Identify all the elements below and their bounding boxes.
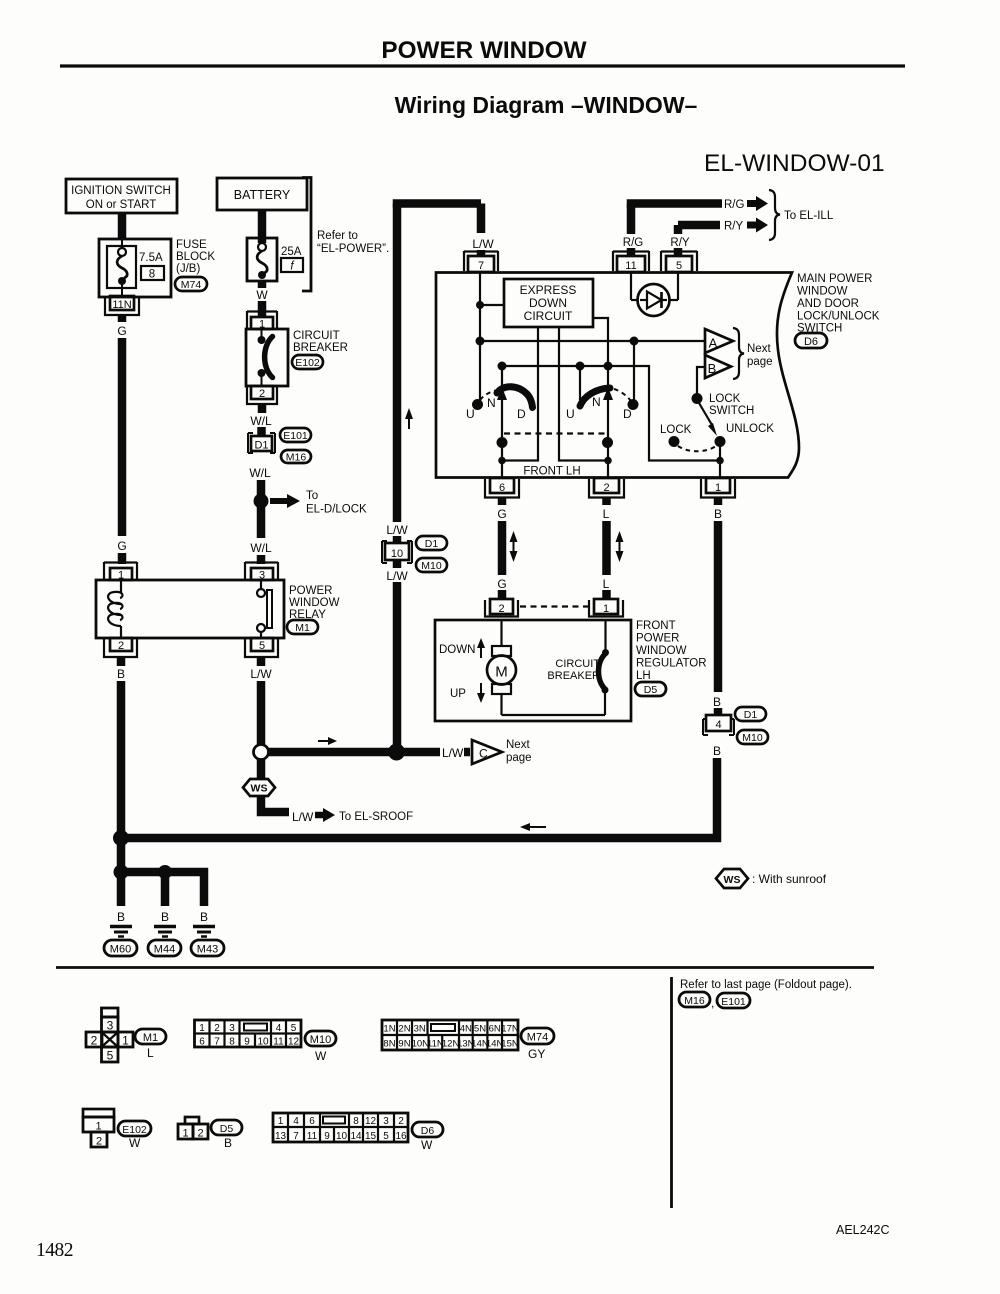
label Next page xyxy=(506,739,532,764)
svg-text:14: 14 xyxy=(350,1131,362,1142)
label B ground 1 xyxy=(117,910,125,924)
wire ignition to fuse block xyxy=(118,213,127,240)
label N xyxy=(592,395,601,409)
svg-text:13: 13 xyxy=(275,1131,287,1142)
svg-text:WINDOW: WINDOW xyxy=(797,286,848,298)
label 25A xyxy=(281,246,302,258)
svg-text:BATTERY: BATTERY xyxy=(234,188,291,202)
bus line 1 inside switch xyxy=(476,337,706,346)
svg-text:E101: E101 xyxy=(721,996,746,1008)
ground bus junction dot xyxy=(113,830,129,846)
svg-text:5: 5 xyxy=(383,1131,389,1142)
svg-text:W: W xyxy=(315,1049,327,1063)
connector 10 inline xyxy=(382,541,412,563)
arrow double L xyxy=(616,531,624,562)
label W/L xyxy=(250,414,272,428)
svg-text:IGNITION SWITCH: IGNITION SWITCH xyxy=(71,185,171,197)
wire dot to C triangle xyxy=(404,748,470,757)
label R/G xyxy=(724,199,745,211)
svg-text:FRONT LH: FRONT LH xyxy=(523,466,580,478)
wire relay 2 to ground bus xyxy=(117,657,126,872)
svg-text:16: 16 xyxy=(395,1131,407,1142)
svg-text:9: 9 xyxy=(244,1037,250,1048)
regulator connector 2 xyxy=(485,599,518,617)
oval M60 xyxy=(104,940,137,956)
svg-text:“EL-POWER”.: “EL-POWER”. xyxy=(317,243,389,255)
wire line2 to right U contact xyxy=(579,366,581,400)
label B xyxy=(713,744,721,758)
header rule xyxy=(60,64,905,67)
svg-text:6: 6 xyxy=(499,482,505,494)
svg-text:WS: WS xyxy=(251,783,268,795)
wire WS to EL-SROOF xyxy=(261,796,289,812)
svg-text:G: G xyxy=(497,577,506,591)
svg-text:3: 3 xyxy=(229,1023,235,1034)
svg-text:UNLOCK: UNLOCK xyxy=(726,423,774,435)
svg-text:M16: M16 xyxy=(286,452,307,464)
svg-text:6N: 6N xyxy=(489,1024,501,1035)
svg-text:7: 7 xyxy=(214,1037,220,1048)
svg-text:M74: M74 xyxy=(527,1032,548,1044)
svg-text:6: 6 xyxy=(199,1037,205,1048)
arrow to EL-SROOF xyxy=(315,808,335,822)
label B xyxy=(117,667,125,681)
refer box vertical rule xyxy=(670,977,673,1208)
label B ground 2 xyxy=(161,910,169,924)
relay connector 5 xyxy=(245,638,278,657)
label L/W above connector 10 xyxy=(383,522,411,537)
wire express down side output xyxy=(593,318,608,366)
label UNLOCK xyxy=(726,423,774,435)
right N line xyxy=(603,366,613,477)
left U contact xyxy=(472,399,483,410)
svg-text:LH: LH xyxy=(636,670,651,682)
svg-text:9N: 9N xyxy=(398,1039,410,1050)
svg-text:W/L: W/L xyxy=(250,541,272,555)
svg-text:BREAKER: BREAKER xyxy=(547,670,600,682)
label R/G above connector 11 xyxy=(623,237,644,249)
svg-text:LOCK/UNLOCK: LOCK/UNLOCK xyxy=(797,311,880,323)
svg-text:L/W: L/W xyxy=(292,810,314,824)
svg-text:M74: M74 xyxy=(181,279,202,291)
label POWER WINDOW RELAY xyxy=(289,585,340,621)
svg-text:B: B xyxy=(224,1136,232,1150)
label To EL-D-LOCK xyxy=(306,490,367,516)
svg-text:N: N xyxy=(592,395,601,409)
svg-text:7.5A: 7.5A xyxy=(139,252,163,264)
svg-text:17N: 17N xyxy=(501,1024,519,1035)
label L/W xyxy=(250,667,272,681)
svg-text:M44: M44 xyxy=(154,944,175,956)
oval D6 view xyxy=(412,1122,443,1137)
oval E101 xyxy=(280,428,311,442)
label R/Y above connector 5 xyxy=(670,237,690,249)
wire L/W drop to connector 7 xyxy=(477,204,486,257)
svg-text:1: 1 xyxy=(278,1116,284,1127)
fuse 7.5A inner box xyxy=(107,246,136,288)
svg-text:EL-D/LOCK: EL-D/LOCK xyxy=(306,504,367,516)
connector 7 main switch xyxy=(464,251,498,272)
svg-text:1N: 1N xyxy=(383,1024,395,1035)
svg-text:C: C xyxy=(479,747,488,761)
svg-text:E101: E101 xyxy=(283,430,308,442)
relay contact xyxy=(257,580,272,638)
svg-text:page: page xyxy=(506,752,532,764)
svg-text:M1: M1 xyxy=(143,1032,158,1044)
svg-text:11: 11 xyxy=(625,260,636,272)
junction dot L/W xyxy=(388,744,405,761)
relay connector 3 xyxy=(245,562,278,582)
label MAIN POWER WINDOW AND DOOR LOCK/UNLOCK SWITCH xyxy=(797,273,880,335)
fuse number box 8 xyxy=(141,266,164,281)
oval D6 xyxy=(795,333,827,348)
dashed lock travel xyxy=(678,446,716,451)
svg-text:D1: D1 xyxy=(425,538,439,550)
wire L/W top horizontal run xyxy=(393,199,481,208)
junction dot to EL-D-LOCK xyxy=(254,494,269,509)
arrow R/Y to EL-ILL xyxy=(747,218,768,233)
svg-text:M: M xyxy=(495,664,508,681)
relay connector 2 xyxy=(104,638,137,657)
svg-text:W: W xyxy=(256,288,268,302)
svg-text:M43: M43 xyxy=(197,944,218,956)
svg-text:2: 2 xyxy=(214,1023,220,1034)
circuit breaker E102 symbol xyxy=(258,329,273,386)
svg-text:D1: D1 xyxy=(254,440,268,452)
svg-text:POWER WINDOW: POWER WINDOW xyxy=(381,37,586,64)
svg-text:ON or START: ON or START xyxy=(86,199,157,211)
label To EL-SROOF xyxy=(339,811,413,823)
svg-text:AEL242C: AEL242C xyxy=(836,1223,890,1237)
title POWER WINDOW xyxy=(381,37,586,64)
wire stub below 11N xyxy=(118,315,127,322)
svg-text:5N: 5N xyxy=(474,1024,486,1035)
regulator connector 1 xyxy=(589,599,623,617)
front power window regulator box xyxy=(435,620,631,721)
dashed mechanical link between switch units xyxy=(504,432,607,434)
right D contact xyxy=(628,399,639,410)
svg-text:M10: M10 xyxy=(310,1034,331,1046)
oval E102 xyxy=(292,355,323,369)
svg-text:B: B xyxy=(161,910,169,924)
label B xyxy=(714,507,722,521)
wire B long xyxy=(714,521,723,692)
label D xyxy=(623,407,632,421)
svg-text:W/L: W/L xyxy=(249,466,271,480)
label To EL-ILL xyxy=(784,210,834,222)
arrow double G xyxy=(510,531,518,562)
comma xyxy=(711,996,714,1010)
wire G ignition column xyxy=(118,338,127,536)
oval D1 xyxy=(416,536,447,550)
svg-text:B: B xyxy=(117,910,125,924)
svg-text:11N: 11N xyxy=(112,299,131,311)
svg-text:2: 2 xyxy=(96,1136,102,1148)
wire express down left output xyxy=(502,327,538,461)
svg-text:B: B xyxy=(200,910,208,924)
svg-text:B: B xyxy=(117,667,125,681)
wire stub below 25A fuse xyxy=(258,281,267,288)
arrow down motor xyxy=(477,683,485,703)
wire L/W horizontal to next page xyxy=(269,748,392,757)
svg-text:D: D xyxy=(623,407,632,421)
svg-text:To EL-SROOF: To EL-SROOF xyxy=(339,811,413,823)
battery box xyxy=(217,178,307,210)
svg-text:8N: 8N xyxy=(383,1039,395,1050)
svg-text:POWER: POWER xyxy=(289,585,332,597)
svg-text:2N: 2N xyxy=(398,1024,410,1035)
svg-text:5: 5 xyxy=(291,1023,297,1034)
svg-text:G: G xyxy=(117,324,126,338)
svg-text:,: , xyxy=(711,996,714,1010)
connector view E102 xyxy=(83,1109,114,1148)
wire L to regulator xyxy=(602,521,611,575)
svg-text:A: A xyxy=(709,336,718,351)
svg-text:: With sunroof: : With sunroof xyxy=(752,872,827,886)
svg-text:8: 8 xyxy=(229,1037,235,1048)
relay connector 1 xyxy=(104,562,137,582)
label LOCK xyxy=(660,424,692,436)
label G xyxy=(117,539,126,553)
dashed link between regulator connectors xyxy=(520,605,588,607)
connector view D5 xyxy=(178,1117,208,1140)
svg-text:M10: M10 xyxy=(742,732,763,744)
wire battery to fuse xyxy=(258,210,267,243)
svg-text:MAIN POWER: MAIN POWER xyxy=(797,273,872,285)
svg-text:EL-WINDOW-01: EL-WINDOW-01 xyxy=(704,150,885,177)
svg-text:W: W xyxy=(421,1138,433,1152)
svg-text:L: L xyxy=(147,1046,154,1060)
svg-text:Next: Next xyxy=(747,343,771,355)
svg-text:D5: D5 xyxy=(644,684,658,696)
oval D5 view xyxy=(211,1120,242,1135)
svg-text:M1: M1 xyxy=(295,622,310,634)
svg-text:f: f xyxy=(290,261,295,273)
oval M74 xyxy=(175,277,207,291)
svg-text:page: page xyxy=(747,356,773,368)
label W/L xyxy=(249,466,271,480)
bracket refer to EL-POWER xyxy=(302,178,311,292)
svg-text:12: 12 xyxy=(365,1116,377,1127)
label CIRCUIT BREAKER inside regulator xyxy=(547,658,600,682)
left switch dashed travel xyxy=(480,391,495,401)
svg-text:B: B xyxy=(708,361,717,376)
label FRONT LH xyxy=(523,466,580,478)
label G xyxy=(497,507,506,521)
svg-text:R/Y: R/Y xyxy=(724,221,744,233)
ground branch wires xyxy=(114,865,205,907)
svg-text:L/W: L/W xyxy=(386,569,408,583)
wire G to regulator xyxy=(498,521,507,575)
wire stub into D1 xyxy=(257,427,266,436)
svg-text:25A: 25A xyxy=(281,246,302,258)
ignition switch box xyxy=(66,179,177,213)
svg-text:Wiring Diagram –WINDOW–: Wiring Diagram –WINDOW– xyxy=(395,92,698,118)
wire unlock to connector 1 xyxy=(716,446,724,477)
right wiper common node xyxy=(602,437,613,464)
svg-text:L: L xyxy=(603,577,610,591)
wire connector 7 into box xyxy=(479,272,481,401)
right switch wiper arc xyxy=(580,388,610,406)
wire R/G horizontal to EL-ILL xyxy=(627,204,722,257)
connector view M74 xyxy=(382,1020,519,1050)
label LOCK SWITCH xyxy=(709,393,754,417)
arrow left on ground bus xyxy=(520,823,546,831)
oval M44 xyxy=(148,940,181,956)
svg-text:L: L xyxy=(603,507,610,521)
ground symbol M43 xyxy=(193,927,215,937)
connector view M1 cross xyxy=(86,1008,133,1063)
svg-text:LOCK: LOCK xyxy=(660,424,692,436)
oval M10 right xyxy=(737,730,768,744)
svg-text:EXPRESS: EXPRESS xyxy=(520,283,577,297)
label G xyxy=(497,577,506,591)
main power window switch box outline xyxy=(436,273,799,478)
svg-text:7: 7 xyxy=(293,1131,299,1142)
wire line1 to right D contact xyxy=(633,341,635,400)
label L/W xyxy=(465,233,499,251)
svg-text:2: 2 xyxy=(603,482,609,494)
label FRONT POWER WINDOW REGULATOR LH xyxy=(636,620,707,682)
wire relay 5 to junction circle xyxy=(257,657,266,744)
svg-text:5: 5 xyxy=(676,260,682,272)
WS legend hexagon xyxy=(716,869,748,888)
svg-text:WINDOW: WINDOW xyxy=(636,645,687,657)
svg-text:U: U xyxy=(466,407,475,421)
svg-text:R/Y: R/Y xyxy=(670,237,690,249)
label FUSE BLOCK (J/B) xyxy=(176,239,215,275)
svg-text:B: B xyxy=(713,744,721,758)
fuse 7.5A symbol xyxy=(117,239,127,297)
svg-text:WS: WS xyxy=(724,874,741,886)
svg-text:W/L: W/L xyxy=(250,414,272,428)
label G xyxy=(117,324,126,338)
svg-text:M60: M60 xyxy=(110,944,131,956)
oval D1 right xyxy=(735,707,766,721)
left N line xyxy=(497,366,507,477)
label DOWN with arrow xyxy=(439,644,475,656)
svg-text:Next: Next xyxy=(506,739,530,751)
junction circle L/W xyxy=(254,745,269,760)
label W color xyxy=(421,1138,433,1152)
svg-text:SWITCH: SWITCH xyxy=(709,405,754,417)
oval E101 legend xyxy=(717,993,750,1008)
svg-text:D5: D5 xyxy=(220,1123,234,1135)
svg-text:L/W: L/W xyxy=(386,523,408,537)
right switch dashed travel xyxy=(614,389,631,401)
svg-text:4: 4 xyxy=(276,1023,282,1034)
wire motor to bottom link xyxy=(502,694,606,715)
svg-text:Refer to last page (Foldout pa: Refer to last page (Foldout page). xyxy=(680,979,852,991)
svg-text:1: 1 xyxy=(199,1023,205,1034)
label U xyxy=(466,407,475,421)
svg-text:5: 5 xyxy=(107,1049,114,1063)
label B color xyxy=(224,1136,232,1150)
svg-text:1: 1 xyxy=(715,482,721,494)
wire stub breaker to D1 xyxy=(258,404,267,413)
svg-text:10: 10 xyxy=(391,548,403,560)
svg-text:15: 15 xyxy=(365,1131,377,1142)
oval M16 xyxy=(281,450,311,464)
svg-text:R/G: R/G xyxy=(724,199,745,211)
power window relay box M1 xyxy=(96,580,284,638)
svg-text:15N: 15N xyxy=(501,1039,519,1050)
page connector triangle B xyxy=(705,355,731,378)
svg-text:N: N xyxy=(487,396,496,410)
svg-text:3: 3 xyxy=(107,1019,114,1033)
wire junction to relay pin 3 xyxy=(257,501,266,538)
svg-text:5: 5 xyxy=(259,640,265,652)
svg-text:(J/B): (J/B) xyxy=(176,263,200,275)
diode in switch xyxy=(631,273,678,316)
svg-text:1: 1 xyxy=(122,1034,129,1048)
svg-text:BLOCK: BLOCK xyxy=(176,251,215,263)
svg-text:G: G xyxy=(117,539,126,553)
oval E102 view xyxy=(118,1121,151,1136)
svg-text:4: 4 xyxy=(715,719,721,731)
oval M1 view xyxy=(135,1029,166,1044)
circuit breaker in regulator xyxy=(599,620,610,715)
label B xyxy=(713,695,721,709)
wire G column xyxy=(498,498,507,506)
label AEL242C xyxy=(836,1223,890,1237)
wire D1 to junction xyxy=(257,480,266,497)
svg-text:3: 3 xyxy=(383,1116,389,1127)
lock switch xyxy=(692,367,718,436)
svg-text:CIRCUIT: CIRCUIT xyxy=(555,658,600,670)
connector 6 under switch xyxy=(485,478,519,498)
connector 5 main switch xyxy=(661,251,697,272)
label GY color xyxy=(528,1047,545,1061)
express down circuit box xyxy=(504,279,593,327)
connector 1 circuit breaker top xyxy=(247,311,277,331)
oval M10 xyxy=(416,558,447,572)
label W color xyxy=(129,1136,141,1150)
svg-text:2: 2 xyxy=(118,640,124,652)
svg-text:CIRCUIT: CIRCUIT xyxy=(524,309,573,323)
label Refer to EL-POWER xyxy=(317,230,389,255)
label R/Y xyxy=(724,221,744,233)
fuse block outer box M74 xyxy=(99,239,171,297)
svg-text:E102: E102 xyxy=(122,1124,147,1136)
svg-text:AND DOOR: AND DOOR xyxy=(797,298,859,310)
wire L stub to regulator pin 1 xyxy=(602,590,611,599)
ground symbol M44 xyxy=(154,927,176,937)
svg-text:9: 9 xyxy=(324,1131,330,1142)
svg-text:8: 8 xyxy=(149,269,155,281)
connector view D6 xyxy=(273,1113,408,1142)
node branch to express down xyxy=(476,301,504,309)
wire B column from switch connector 1 xyxy=(714,498,723,506)
oval M16 legend xyxy=(679,992,710,1007)
wire stub to relay pin 3 xyxy=(257,555,266,564)
svg-text:2: 2 xyxy=(498,603,504,615)
relay coil xyxy=(108,580,122,638)
brace to EL-ILL xyxy=(769,190,780,240)
wire L/W main vertical xyxy=(393,204,402,753)
svg-text:6: 6 xyxy=(309,1116,315,1127)
svg-text:R/G: R/G xyxy=(623,237,644,249)
brace next page xyxy=(733,328,744,379)
label W color xyxy=(315,1049,327,1063)
label 7.5A xyxy=(139,252,163,264)
svg-text:D1: D1 xyxy=(744,709,758,721)
svg-text:To EL-ILL: To EL-ILL xyxy=(784,210,834,222)
connector 11N xyxy=(105,296,139,315)
svg-text:U: U xyxy=(566,407,575,421)
svg-text:M16: M16 xyxy=(684,995,705,1007)
svg-text:UP: UP xyxy=(450,688,466,700)
